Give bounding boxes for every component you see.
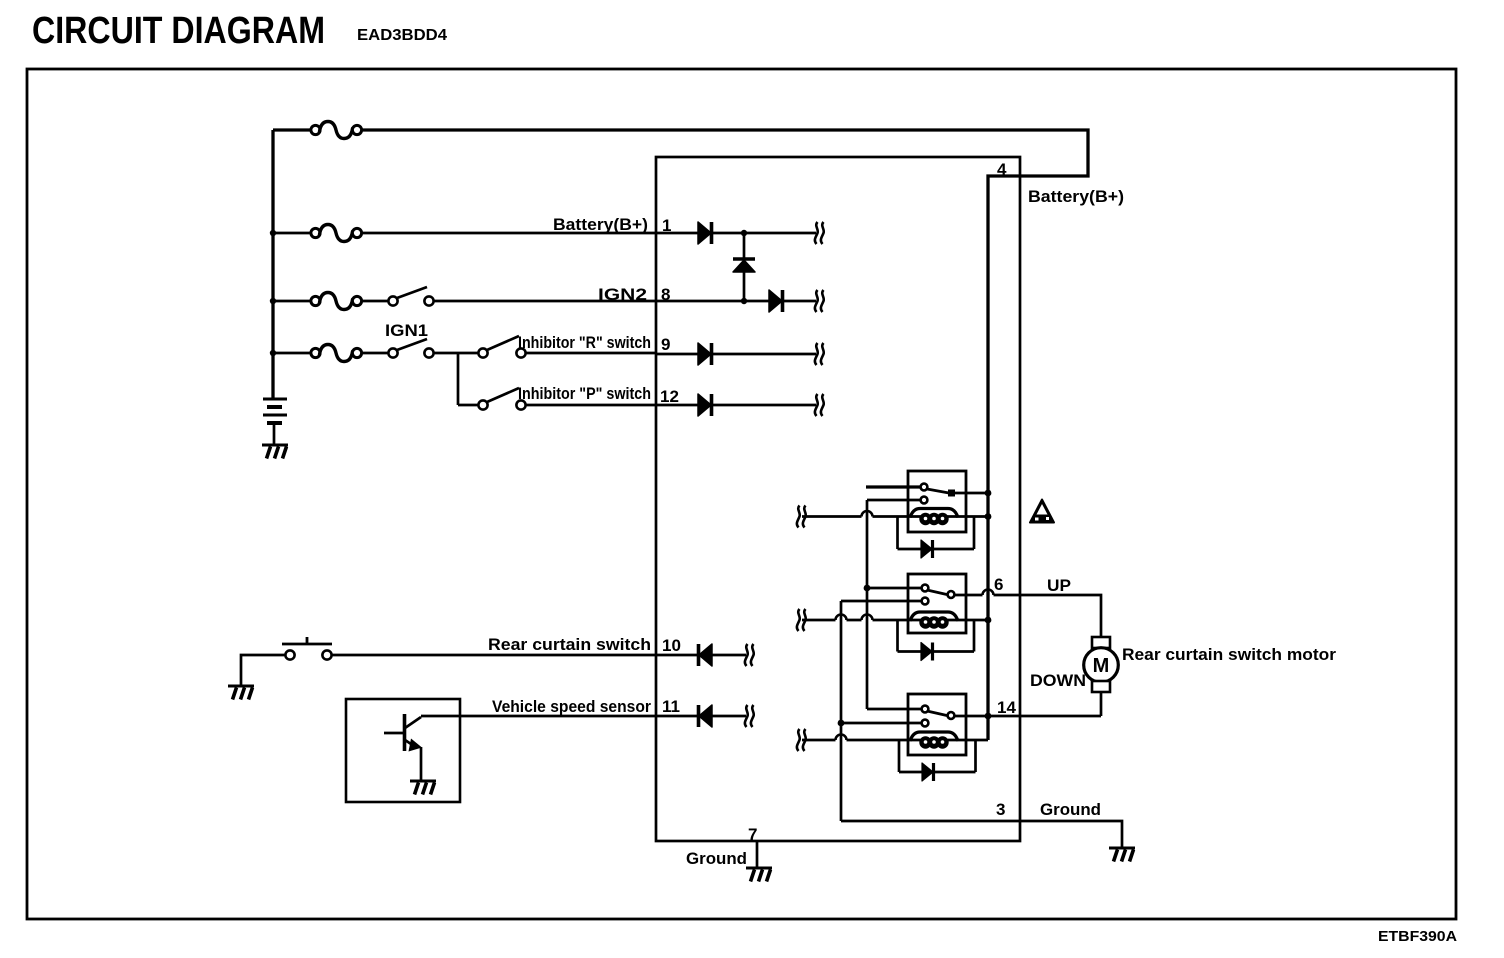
svg-text:4: 4 — [997, 160, 1007, 179]
svg-text:Rear curtain switch: Rear curtain switch — [488, 635, 651, 654]
svg-text:3: 3 — [996, 800, 1005, 819]
svg-text:Battery(B+): Battery(B+) — [553, 215, 648, 234]
svg-text:8: 8 — [661, 285, 670, 304]
svg-text:7: 7 — [748, 825, 757, 844]
svg-text:IGN2: IGN2 — [598, 285, 647, 304]
svg-text:EAD3BDD4: EAD3BDD4 — [357, 27, 447, 44]
svg-text:Ground: Ground — [686, 849, 747, 868]
svg-text:Inhibitor "P" switch: Inhibitor "P" switch — [518, 384, 651, 403]
svg-text:IGN1: IGN1 — [385, 321, 428, 340]
svg-text:14: 14 — [997, 698, 1016, 717]
svg-text:Ground: Ground — [1040, 800, 1101, 819]
svg-text:9: 9 — [661, 335, 670, 354]
svg-text:Battery(B+): Battery(B+) — [1028, 187, 1124, 206]
svg-text:Rear curtain switch motor: Rear curtain switch motor — [1122, 645, 1336, 664]
svg-text:M: M — [1093, 655, 1110, 677]
svg-text:12: 12 — [660, 387, 679, 406]
svg-text:10: 10 — [662, 636, 681, 655]
svg-text:11: 11 — [662, 697, 680, 716]
svg-text:Vehicle speed sensor: Vehicle speed sensor — [492, 697, 651, 716]
svg-text:UP: UP — [1047, 576, 1071, 595]
svg-text:CIRCUIT DIAGRAM: CIRCUIT DIAGRAM — [32, 10, 325, 52]
svg-text:ETBF390A: ETBF390A — [1378, 928, 1457, 945]
svg-text:6: 6 — [994, 575, 1003, 594]
svg-text:DOWN: DOWN — [1030, 671, 1086, 690]
svg-text:1: 1 — [662, 216, 671, 235]
svg-text:Inhibitor "R" switch: Inhibitor "R" switch — [518, 333, 651, 352]
